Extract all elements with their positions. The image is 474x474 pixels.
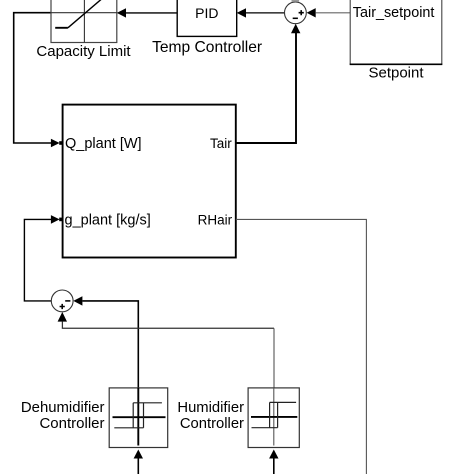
wire Humidifier Controller output to sum2: [62, 321, 274, 328]
wire Dehumidifier Controller output to sum2: [82, 301, 138, 392]
wire into Dehumidifier Controller from below: [137, 459, 139, 474]
arrowhead into Q_plant input: [51, 139, 60, 148]
arrowhead into Capacity Limit right edge: [117, 8, 126, 17]
svg-text:Controller: Controller: [39, 415, 104, 432]
sum junction 2 (RH error): [51, 290, 73, 312]
arrowhead into Humidifier Controller bottom input: [269, 450, 278, 459]
svg-text:Temp Controller: Temp Controller: [152, 39, 262, 56]
arrowhead into sum1 right: [307, 8, 316, 17]
wire RHair output down right side: [236, 219, 367, 474]
saturation block Capacity Limit: [51, 0, 117, 43]
PID block Temp Controller: [177, 0, 237, 36]
wire PID output to Capacity Limit: [126, 12, 177, 14]
svg-text:Capacity Limit: Capacity Limit: [36, 43, 131, 60]
svg-text:Humidifier: Humidifier: [177, 400, 244, 416]
wire from Capacity Limit output left and down to Q_plant input: [14, 13, 52, 143]
wire sum1 output to PID: [246, 12, 285, 14]
svg-text:Controller: Controller: [180, 416, 244, 432]
svg-text:Q_plant [W]: Q_plant [W]: [65, 136, 142, 152]
svg-text:Tair_setpoint: Tair_setpoint: [353, 5, 435, 21]
arrowhead into sum2 bottom: [58, 312, 67, 322]
plant block (greenhouse model): [63, 105, 236, 258]
svg-text:PID: PID: [195, 5, 218, 21]
arrowhead into Dehumidifier Controller bottom input: [134, 450, 143, 459]
arrowhead into PID right edge: [237, 8, 246, 17]
arrowhead into sum1 bottom: [291, 24, 300, 33]
wire Tair_setpoint to sum1: [316, 12, 351, 14]
wire sum2 output to g_plant input: [24, 219, 51, 301]
sum junction 1 (Tair error): [285, 2, 307, 24]
svg-text:g_plant [kg/s]: g_plant [kg/s]: [65, 213, 151, 229]
source block Tair_setpoint: [350, 0, 443, 64]
arrowhead into sum2 right: [73, 296, 82, 305]
wire Tair feedback to sum1 bottom: [236, 33, 296, 143]
svg-text:Dehumidifier: Dehumidifier: [21, 400, 105, 416]
relay block Dehumidifier Controller: [109, 388, 168, 448]
relay block Humidifier Controller: [248, 388, 299, 448]
gray crop artifact above sum1: [292, 0, 300, 2]
arrowhead into g_plant input: [51, 215, 60, 224]
svg-text:RHair: RHair: [198, 213, 233, 228]
wire into Humidifier Controller from below: [273, 459, 275, 474]
svg-text:Setpoint: Setpoint: [368, 65, 424, 82]
svg-text:Tair: Tair: [210, 136, 232, 151]
